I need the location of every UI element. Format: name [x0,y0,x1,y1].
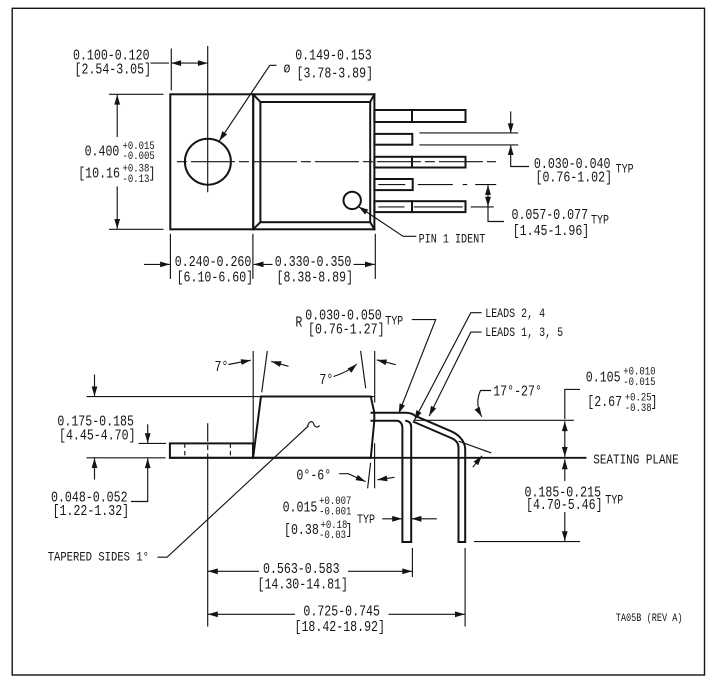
svg-text:0.330-0.350: 0.330-0.350 [275,254,352,271]
svg-text:0.015: 0.015 [283,499,318,516]
svg-text:TYP: TYP [385,316,403,329]
side view: body outline [253,397,374,458]
R 0.030-0.050 leader [399,320,436,414]
svg-text:[0.76-1.27]: [0.76-1.27] [308,321,385,338]
side view: hole centerline / dim reference line [207,423,209,626]
side view: lead bottom extension line [414,419,574,421]
svg-text:[18.42-18.92]: [18.42-18.92] [295,619,385,636]
top view: horizontal centerline through hole and lead 3 [177,161,496,163]
side view: lead tip extension line right [474,541,580,543]
top view: body top face bevel rect [260,102,370,222]
svg-text:-0.015: -0.015 [623,377,655,389]
dim 0.030-0.040 extension lines [419,132,518,134]
side view: seating plane line and package bottom [170,457,586,459]
top view: pin 1 ident dot [344,192,361,209]
top view: lead 1 [374,201,465,212]
dim 0.725-0.745 line and arrows [208,613,295,615]
svg-text:-0.005: -0.005 [123,151,155,163]
svg-text:LEADS 2, 4: LEADS 2, 4 [485,308,545,321]
svg-text:ø: ø [284,60,291,77]
dim 0-6deg vertical reference line below seating plane [374,443,376,488]
svg-text:]: ] [651,394,658,411]
side view: leads 2,4 profile (bend down at body) [372,421,412,542]
svg-text:-0.001: -0.001 [319,507,351,519]
svg-text:TAPERED SIDES 1°: TAPERED SIDES 1° [48,550,149,565]
top view: mounting hole [185,139,231,185]
svg-text:0.105: 0.105 [586,369,621,386]
svg-text:PIN 1 IDENT: PIN 1 IDENT [419,233,486,247]
dim 0.030-0.040 arrows [510,111,512,133]
svg-text:0.149-0.153: 0.149-0.153 [295,47,372,64]
svg-text:TA05B (REV A): TA05B (REV A) [616,612,683,624]
top view: lead 5 [374,110,465,122]
tapered sides leader with squiggle [157,426,308,557]
dim 0-6deg leader and arrows [339,474,365,482]
dim 0.725-0.745 extension line [464,548,466,627]
dim 0.100-0.120 connector, extension line and arrows [151,62,170,64]
side view: body top extension line [87,396,375,398]
top view: body outer outline [253,94,374,229]
dim 0.175-0.185 arrows [94,375,96,397]
svg-text:0.057-0.077: 0.057-0.077 [512,207,589,224]
svg-text:0.725-0.745: 0.725-0.745 [303,603,380,620]
svg-text:-0.03: -0.03 [319,530,346,542]
7deg left: vertical reference line [252,351,254,457]
dim 0.048-0.052 arrows [147,424,149,443]
dim 0.105 bracket and arrows [565,389,580,419]
svg-text:[6.10-6.60]: [6.10-6.60] [177,270,254,287]
svg-text:TYP: TYP [616,164,634,177]
side view: tab outline [170,443,253,457]
dim 0.185-0.215 arrows [564,459,566,481]
dim 0-6deg tapered edge extension below seating plane [368,463,371,489]
top view: lead 2 [374,179,412,190]
top view: lead 2 centerline [378,184,496,186]
side view: leads 1,3,5 profile (out then 17-27deg bend) [372,413,466,542]
dim 0.563-0.583 line and arrows [208,570,259,572]
svg-text:[1.22-1.32]: [1.22-1.32] [53,503,130,520]
top view: hole vertical centerline [207,46,209,192]
svg-text:[10.16: [10.16 [78,165,120,182]
dim 0.563-0.583 extension line [411,548,413,577]
dim 0.240-0.260 and 0.330-0.350 extension lines [169,234,171,279]
top view: lead 4 [374,134,412,145]
svg-text:R: R [295,314,302,331]
dim arrows bottom of top view [144,263,170,265]
svg-text:[3.78-3.89]: [3.78-3.89] [297,65,374,82]
top view: lead 3 [374,157,465,168]
svg-text:TYP: TYP [357,514,375,527]
7deg middle: tapered edge extension line [361,351,366,389]
svg-text:0°-6°: 0°-6° [296,468,331,485]
dim 0.057-0.077 arrows [487,185,489,196]
top view: mounting tab outline [170,94,253,229]
svg-text:[0.38: [0.38 [284,522,319,539]
side view: hidden hole edges in tab [184,443,186,457]
svg-text:]: ] [346,522,353,539]
side view: tab top extension line [139,442,167,444]
svg-text:[14.30-14.81]: [14.30-14.81] [258,576,348,593]
svg-text:[4.70-5.46]: [4.70-5.46] [526,497,603,514]
dim 17-27deg leader arc and arrows [478,391,491,417]
svg-text:]: ] [149,165,156,182]
side view: bottom extension line left [87,457,166,459]
svg-text:[8.38-8.89]: [8.38-8.89] [277,270,354,287]
svg-text:-0.13: -0.13 [123,174,150,186]
svg-text:0.400: 0.400 [85,143,120,160]
7deg left: tapered edge extension line [262,351,268,392]
dim 0.400 extension lines and arrows [109,93,164,95]
svg-text:0.240-0.260: 0.240-0.260 [175,254,252,271]
dim 0.015 arrows [382,518,402,520]
7deg middle: vertical reference line [374,351,376,403]
svg-text:SEATING PLANE: SEATING PLANE [593,452,678,467]
svg-text:0.563-0.583: 0.563-0.583 [263,561,340,578]
svg-text:[2.67: [2.67 [587,394,622,411]
svg-text:17°-27°: 17°-27° [493,383,542,400]
top view: lead 1 centerline [378,206,493,208]
svg-text:-0.38: -0.38 [625,403,652,415]
svg-text:LEADS 1, 3, 5: LEADS 1, 3, 5 [485,327,563,340]
dia leader to hole [219,65,276,141]
svg-text:TYP: TYP [605,495,623,508]
svg-text:7°: 7° [319,372,333,389]
svg-text:7°: 7° [215,359,229,376]
svg-text:[0.76-1.02]: [0.76-1.02] [536,169,613,186]
svg-text:[4.45-4.70]: [4.45-4.70] [59,427,136,444]
top view: bevel corner diagonals [253,94,374,229]
svg-text:[1.45-1.96]: [1.45-1.96] [513,223,590,240]
svg-text:TYP: TYP [591,215,609,228]
svg-text:[2.54-3.05]: [2.54-3.05] [75,61,152,78]
